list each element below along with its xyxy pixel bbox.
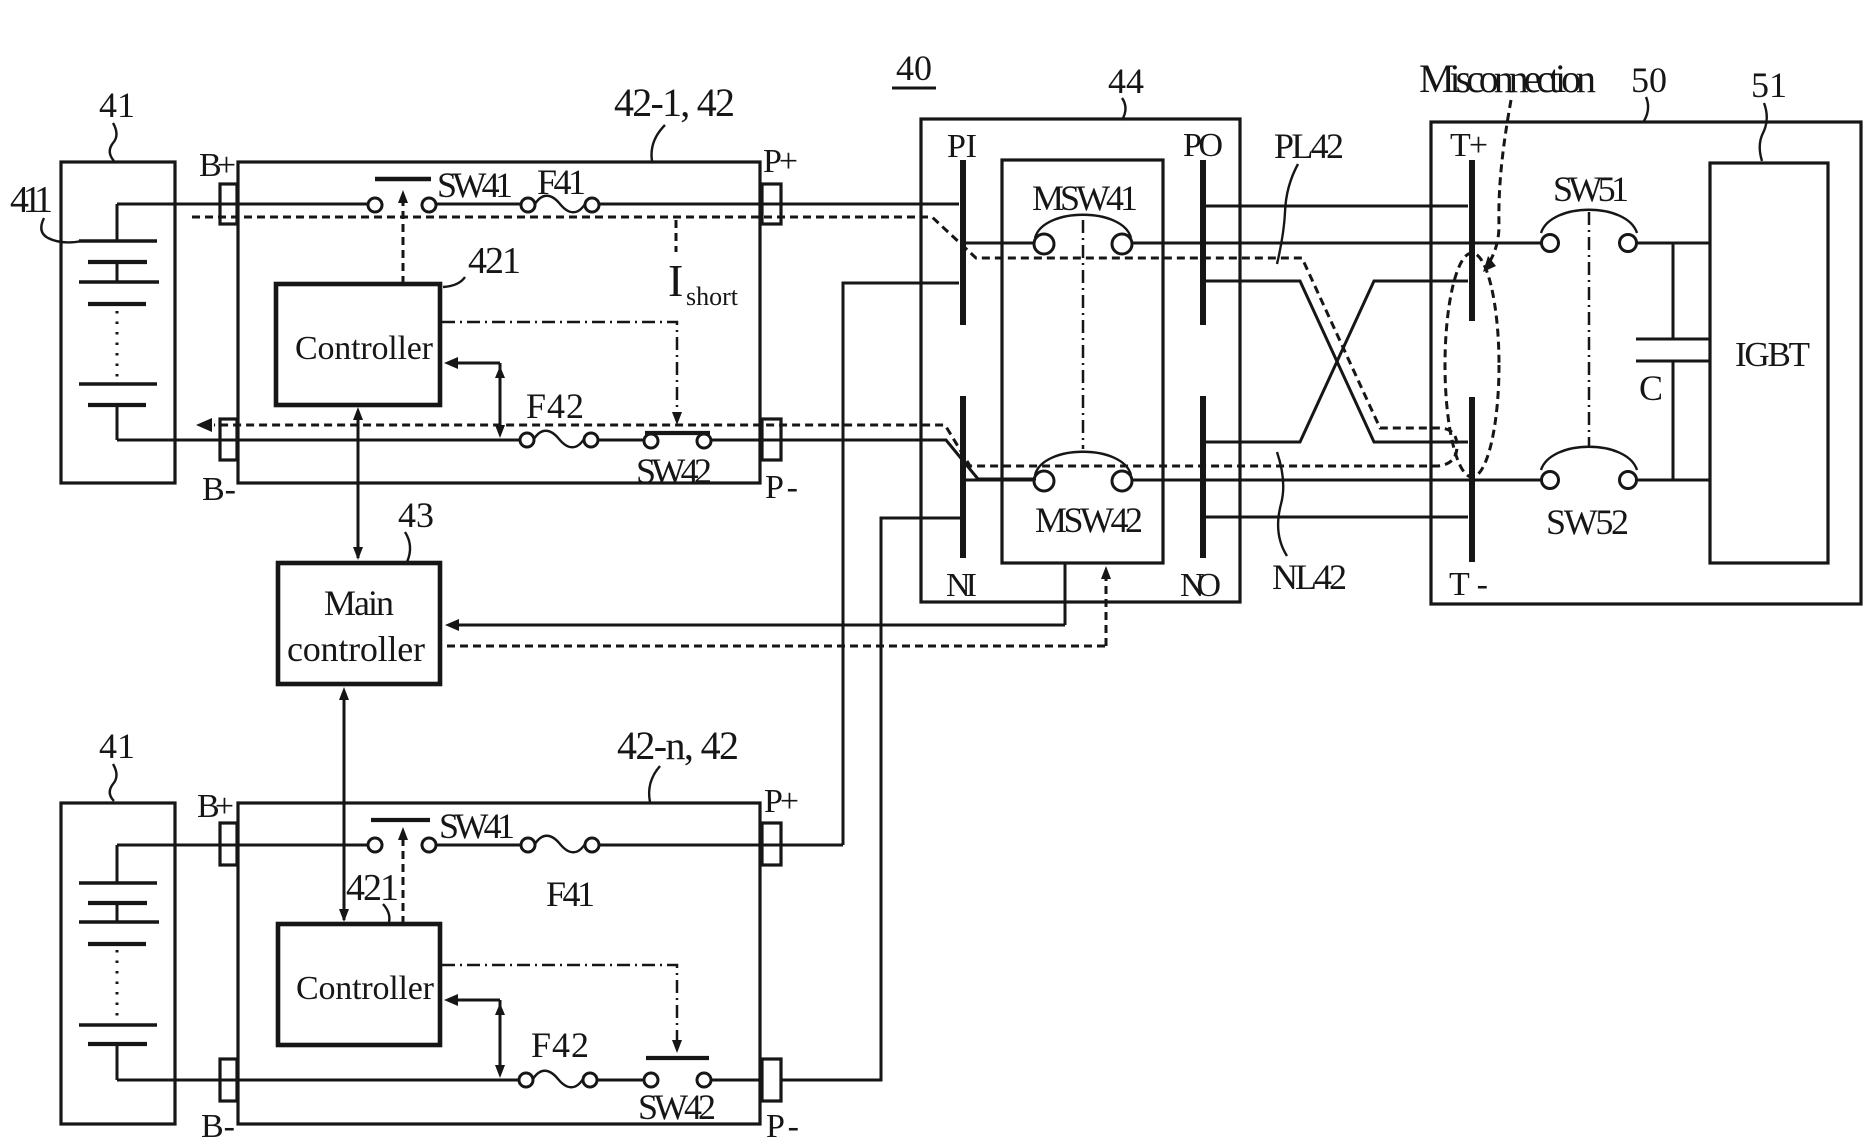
svg-text:PI: PI	[947, 128, 977, 165]
IGBT box 51	[1710, 163, 1828, 563]
svg-text:Main: Main	[324, 583, 394, 623]
wire NI to MSW42	[965, 479, 1035, 482]
leader 42-1	[652, 125, 665, 161]
dash-dot control line to SW42 (top)	[442, 322, 677, 416]
leader 50	[1644, 97, 1648, 121]
wire MSW42 to SW52 bus	[1132, 479, 1541, 482]
control arrow to SW41 (bottom)	[398, 827, 408, 924]
leader NL42	[1277, 452, 1287, 556]
svg-text:SW42: SW42	[638, 1087, 716, 1127]
box 50	[1431, 122, 1861, 604]
svg-text:P+: P+	[764, 783, 799, 820]
svg-text:51: 51	[1751, 65, 1787, 105]
solid control line from 44 to main controller	[445, 563, 1065, 631]
switch SW41 (bottom, open)	[368, 820, 436, 852]
control arrow to SW41 (top)	[398, 190, 408, 284]
svg-text:B+: B+	[197, 788, 234, 825]
fuse F42 (bottom)	[519, 1071, 597, 1088]
svg-text:F41: F41	[546, 874, 595, 914]
svg-text:SW52: SW52	[1546, 502, 1629, 542]
svg-text:41: 41	[99, 726, 135, 766]
wire SW52 to IGBT	[1636, 479, 1710, 482]
wire PI to MSW41	[965, 242, 1035, 245]
wire SW42 to P- (bottom)	[711, 1079, 762, 1082]
leader 41 (bottom)	[110, 764, 117, 801]
svg-text:B-: B-	[202, 471, 236, 508]
svg-text:NO: NO	[1180, 567, 1221, 604]
terminal B+ (bottom)	[220, 823, 237, 865]
svg-text:411: 411	[10, 179, 53, 221]
fuse F42 (top)	[520, 431, 598, 448]
terminal P+ (top)	[762, 184, 781, 224]
terminal P- (bottom)	[762, 1059, 781, 1101]
wire F41 to PI (top)	[599, 203, 959, 206]
svg-text:42-n, 42: 42-n, 42	[617, 723, 739, 768]
leader 421 (bottom)	[383, 904, 389, 922]
dashed short-circuit path (forward)	[192, 217, 1457, 466]
svg-text:C: C	[1639, 368, 1663, 408]
wire SW51 to IGBT	[1636, 242, 1710, 245]
battery pack 41 (top)	[61, 162, 175, 483]
wire P+ riser to PI	[843, 283, 959, 845]
svg-text:Misconnection: Misconnection	[1419, 56, 1596, 101]
svg-text:42-1, 42: 42-1, 42	[614, 80, 735, 125]
leader Misconnection (dashed with arrow)	[1489, 100, 1511, 263]
svg-text:44: 44	[1108, 61, 1144, 101]
leader 51	[1760, 103, 1767, 161]
terminal B- (top)	[220, 419, 237, 460]
crossed line PO to T-	[1206, 281, 1468, 442]
svg-text:421: 421	[468, 240, 521, 282]
main switch MSW41	[1034, 215, 1132, 254]
switch SW52	[1541, 447, 1637, 489]
terminal P- (top)	[762, 419, 781, 460]
svg-text:B-: B-	[201, 1108, 235, 1145]
wire B- to F42 (bottom)	[117, 1079, 519, 1082]
svg-text:Controller: Controller	[295, 330, 434, 367]
wire P- riser to NI	[781, 518, 960, 1080]
svg-text:50: 50	[1631, 60, 1667, 100]
line PL42 straight PO to T+	[1206, 205, 1468, 208]
svg-text:PO: PO	[1183, 127, 1223, 164]
dash-dot control line to SW42 (bottom)	[442, 965, 677, 1044]
svg-text:P+: P+	[763, 143, 798, 180]
svg-text:Controller: Controller	[296, 970, 435, 1007]
svg-text:short: short	[686, 282, 739, 311]
fuse F41 (bottom)	[521, 836, 599, 853]
wire MSW41 to SW51 bus	[1132, 242, 1541, 245]
crossed line NO to T+	[1206, 281, 1468, 442]
svg-text:controller: controller	[287, 629, 425, 669]
wire SW41-F41 (top)	[436, 203, 521, 206]
link main controller to controller (bottom)	[339, 687, 349, 922]
leader 43	[405, 532, 410, 562]
linkage MSW41-MSW42	[1082, 220, 1085, 449]
svg-text:SW51: SW51	[1553, 169, 1629, 209]
capacitor C	[1636, 243, 1710, 480]
wire F41 to P+ (bottom)	[599, 844, 843, 847]
leader 421 (top)	[443, 277, 465, 287]
controller box 421 (top)	[276, 284, 440, 405]
sense line controller-wire (top)	[444, 357, 505, 438]
svg-text:40: 40	[896, 48, 932, 88]
leader 42-n	[649, 766, 660, 802]
svg-text:T+: T+	[1450, 127, 1488, 164]
link controller to main controller	[353, 407, 363, 560]
svg-text:SW42: SW42	[636, 451, 712, 491]
wire B- to F42 (top)	[117, 439, 520, 442]
wire F42-SW42 (top)	[598, 439, 644, 442]
terminal bar NI	[960, 396, 966, 558]
svg-text:SW41: SW41	[437, 165, 513, 205]
switch SW42 (top, closed)	[644, 433, 711, 448]
svg-text:B+: B+	[199, 147, 236, 184]
sense line controller-wire (bottom)	[444, 994, 505, 1078]
label Ishort	[668, 220, 739, 311]
terminal B- (bottom)	[220, 1059, 237, 1101]
box 42-n, 42	[238, 803, 760, 1124]
svg-text:IGBT: IGBT	[1735, 335, 1810, 374]
svg-text:F42: F42	[526, 386, 584, 426]
terminal bar PO	[1200, 160, 1206, 325]
switch SW41 (top, open)	[368, 179, 436, 212]
terminal bar T+	[1469, 160, 1475, 321]
leader 44	[1122, 98, 1126, 120]
box 40	[921, 119, 1240, 602]
terminal bar PI	[960, 160, 966, 325]
wire battery+ to SW41 (top)	[117, 203, 368, 206]
switch SW51	[1541, 210, 1637, 252]
fuse F41 (top)	[521, 196, 599, 213]
battery cell stack (top)	[79, 204, 159, 440]
terminal bar T-	[1469, 397, 1475, 562]
terminal bar NO	[1200, 396, 1206, 558]
svg-text:NI: NI	[946, 567, 977, 604]
arrowhead to SW42 (top)	[672, 412, 682, 425]
battery pack 41 (bottom)	[61, 803, 175, 1124]
terminal P+ (bottom)	[762, 823, 781, 865]
wire SW42 to NI with jog (top)	[711, 440, 1036, 479]
svg-text:41: 41	[99, 85, 135, 125]
misconnection ellipse	[1445, 253, 1499, 477]
svg-text:F42: F42	[531, 1025, 589, 1065]
box 44	[1002, 160, 1163, 563]
svg-text:MSW42: MSW42	[1035, 500, 1143, 540]
switch SW42 (bottom, open)	[644, 1058, 711, 1087]
main controller box 43	[278, 563, 440, 684]
svg-text:NL42: NL42	[1272, 557, 1347, 597]
svg-text:P-: P-	[766, 1108, 799, 1145]
dashed control line from main controller to 44	[447, 566, 1111, 646]
line NL42 straight NO to T-	[1206, 516, 1468, 519]
wire SW41-F41 (bottom)	[436, 844, 521, 847]
arrowhead to SW42 (bottom)	[672, 1040, 682, 1053]
box 42-1, 42	[238, 162, 760, 483]
leader PL42	[1277, 164, 1298, 264]
arrow at B- on dashed path	[196, 418, 212, 432]
battery cell stack (bottom)	[79, 845, 159, 1080]
leader 411	[41, 218, 82, 242]
linkage SW51-SW52	[1588, 212, 1591, 448]
svg-text:43: 43	[398, 495, 434, 535]
main switch MSW42	[1034, 452, 1132, 491]
svg-text:I: I	[668, 255, 683, 306]
terminal B+ (top)	[220, 184, 237, 224]
wire F42-SW42 (bottom)	[597, 1079, 644, 1082]
svg-text:P-: P-	[765, 469, 798, 506]
underline of 40	[892, 87, 936, 90]
controller box 421 (bottom)	[278, 924, 440, 1045]
svg-text:MSW41: MSW41	[1032, 178, 1138, 218]
svg-text:SW41: SW41	[439, 806, 515, 846]
wire battery+ to SW41 (bottom)	[117, 844, 368, 847]
svg-text:421: 421	[346, 867, 399, 909]
svg-text:F41: F41	[537, 162, 586, 202]
leader 41	[110, 123, 117, 161]
svg-text:PL42: PL42	[1274, 126, 1344, 166]
